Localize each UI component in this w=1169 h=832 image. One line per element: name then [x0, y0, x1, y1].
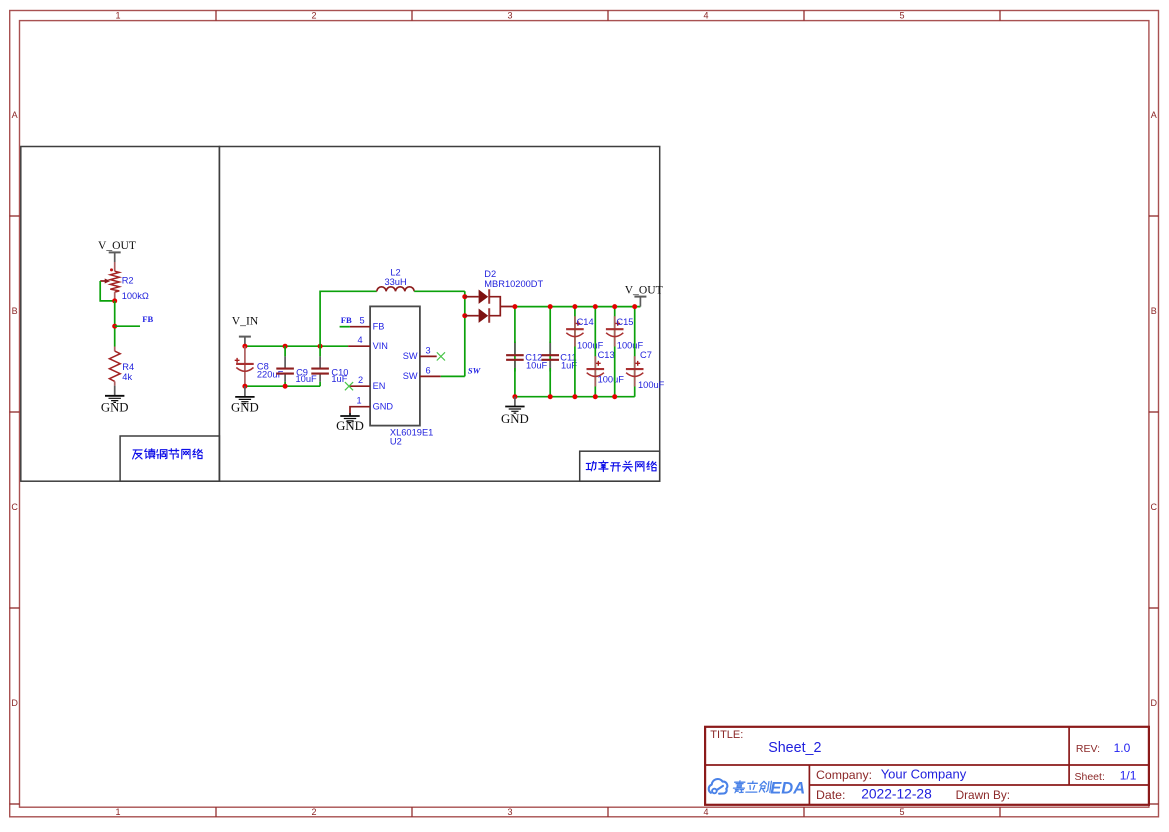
pin 6 SW — [420, 375, 441, 377]
svg-text:10uF: 10uF — [526, 361, 548, 371]
logo text 嘉立创EDA — [733, 781, 772, 793]
svg-text:1.0: 1.0 — [1114, 741, 1131, 755]
resistor R4 — [109, 347, 120, 386]
svg-text:EDA: EDA — [770, 780, 805, 798]
resistor R2 (potentiometer) — [100, 262, 119, 301]
svg-text:R2: R2 — [122, 276, 134, 286]
svg-text:1/1: 1/1 — [1120, 769, 1137, 783]
svg-text:Drawn By:: Drawn By: — [956, 788, 1010, 802]
logo JLCEDA — [709, 779, 728, 794]
svg-text:FB: FB — [341, 315, 352, 325]
svg-text:VIN: VIN — [373, 341, 388, 351]
output rail junctions — [512, 304, 517, 309]
ground (U2 pin1) — [336, 413, 364, 433]
svg-text:GND: GND — [501, 412, 529, 426]
wire output top rail — [515, 306, 641, 308]
no-connect X (SW pin3) — [437, 352, 445, 360]
ground (C8) — [231, 386, 259, 414]
svg-text:100uF: 100uF — [638, 380, 665, 390]
svg-text:TITLE:: TITLE: — [710, 729, 743, 741]
port V_OUT (output) — [625, 284, 663, 307]
svg-text:33uH: 33uH — [384, 277, 406, 287]
wire bottom cap rail — [245, 385, 320, 387]
svg-text:Date:: Date: — [816, 788, 845, 802]
junction C8 bottom — [242, 384, 247, 389]
pin 2 EN — [349, 385, 370, 387]
svg-text:4k: 4k — [122, 372, 132, 382]
svg-text:10uF: 10uF — [296, 374, 318, 384]
wire V_IN rail — [245, 345, 348, 347]
svg-text:GND: GND — [373, 401, 394, 411]
svg-text:SW: SW — [403, 371, 418, 381]
svg-text:FB: FB — [373, 321, 385, 331]
svg-text:A: A — [1151, 110, 1157, 120]
capacitor C10 — [311, 346, 329, 386]
wire SW pin6 link — [441, 375, 465, 377]
box feedback network — [21, 147, 220, 482]
capacitor C12 — [506, 307, 524, 397]
pin 1 GND — [350, 407, 370, 413]
wire output bottom rail — [515, 396, 635, 398]
svg-text:100uF: 100uF — [577, 341, 604, 351]
svg-text:B: B — [12, 306, 18, 316]
capacitor C13 — [587, 307, 605, 397]
svg-text:4: 4 — [703, 807, 708, 817]
pin 4 VIN — [348, 345, 370, 347]
wire R2 to R4 — [114, 301, 116, 347]
svg-text:MBR10200DT: MBR10200DT — [484, 279, 543, 289]
diode D2 (dual schottky) — [465, 289, 515, 323]
capacitor C15 — [606, 307, 624, 397]
label 反馈调节网络 — [120, 436, 219, 481]
svg-text:Sheet_2: Sheet_2 — [768, 740, 821, 756]
svg-text:C7: C7 — [640, 350, 652, 360]
svg-text:5: 5 — [899, 807, 904, 817]
svg-text:3: 3 — [507, 807, 512, 817]
svg-text:C14: C14 — [577, 317, 594, 327]
svg-text:SW: SW — [468, 365, 482, 375]
svg-text:SW: SW — [403, 351, 418, 361]
svg-text:3: 3 — [425, 345, 430, 355]
svg-text:3: 3 — [507, 11, 512, 21]
port V_OUT — [98, 239, 136, 262]
svg-text:REV:: REV: — [1076, 743, 1100, 755]
junction VIN riser — [318, 344, 323, 349]
label 功率开关网络 — [580, 451, 660, 481]
svg-text:6: 6 — [425, 365, 430, 375]
svg-text:2: 2 — [311, 807, 316, 817]
svg-text:4: 4 — [357, 335, 362, 345]
svg-text:GND: GND — [231, 401, 259, 415]
ground (output rail) — [501, 397, 529, 426]
svg-text:GND: GND — [101, 400, 129, 414]
capacitor C11 — [541, 307, 559, 397]
svg-text:EN: EN — [373, 381, 386, 391]
svg-text:V_OUT: V_OUT — [98, 239, 136, 252]
svg-text:1: 1 — [115, 807, 120, 817]
pin 3 SW — [420, 355, 437, 357]
svg-text:2: 2 — [311, 11, 316, 21]
capacitor C9 — [276, 346, 294, 386]
svg-text:Your Company: Your Company — [881, 767, 967, 782]
junction D2 anode bottom — [462, 313, 467, 318]
svg-text:V_OUT: V_OUT — [625, 284, 663, 297]
wire FB stub — [115, 325, 140, 327]
svg-text:D: D — [1151, 698, 1158, 708]
inductor L2 — [377, 287, 414, 291]
wire FB net stub — [340, 326, 350, 328]
svg-text:R4: R4 — [122, 362, 134, 372]
svg-text:D: D — [11, 698, 18, 708]
svg-text:C: C — [11, 502, 18, 512]
svg-text:B: B — [1151, 306, 1157, 316]
title block — [705, 727, 1149, 805]
wire diode anode column — [464, 291, 466, 376]
capacitor C7 — [626, 307, 644, 397]
junction FB tap — [112, 324, 117, 329]
svg-text:100uF: 100uF — [617, 341, 644, 351]
svg-text:C: C — [1151, 502, 1158, 512]
svg-text:FB: FB — [142, 314, 153, 324]
capacitor C14 — [566, 307, 584, 397]
svg-text:1: 1 — [115, 11, 120, 21]
junction D2 anode top — [462, 294, 467, 299]
junction R2 bottom — [112, 298, 117, 303]
capacitor C8 — [235, 346, 254, 386]
svg-text:V_IN: V_IN — [232, 315, 259, 328]
ground (R4) — [101, 386, 129, 415]
svg-text:A: A — [12, 110, 18, 120]
svg-text:1: 1 — [356, 396, 361, 406]
svg-text:2022-12-28: 2022-12-28 — [861, 787, 932, 802]
svg-text:Company:: Company: — [816, 768, 872, 782]
svg-text:D2: D2 — [484, 269, 496, 279]
svg-text:100uF: 100uF — [598, 375, 625, 385]
svg-text:4: 4 — [703, 11, 708, 21]
svg-text:C15: C15 — [616, 317, 633, 327]
junction C9 top — [283, 344, 288, 349]
port V_IN — [232, 315, 259, 347]
svg-text:2: 2 — [358, 375, 363, 385]
wire L2 to diode column — [414, 290, 465, 292]
svg-text:U2: U2 — [390, 437, 402, 447]
junction V_IN — [242, 344, 247, 349]
box power switch network — [219, 147, 659, 482]
wire pot wiper loop — [100, 281, 115, 301]
svg-text:Sheet:: Sheet: — [1075, 771, 1105, 783]
IC U2 XL6019E1 — [348, 306, 441, 425]
svg-text:C13: C13 — [598, 350, 615, 360]
svg-text:100kΩ: 100kΩ — [122, 291, 149, 301]
svg-text:5: 5 — [899, 11, 904, 21]
junction C9 bottom — [283, 384, 288, 389]
pin 5 FB — [350, 326, 370, 328]
svg-text:GND: GND — [336, 419, 364, 433]
wire VIN riser — [320, 291, 377, 346]
svg-text:5: 5 — [359, 316, 364, 326]
no-connect X (EN) — [345, 382, 353, 390]
